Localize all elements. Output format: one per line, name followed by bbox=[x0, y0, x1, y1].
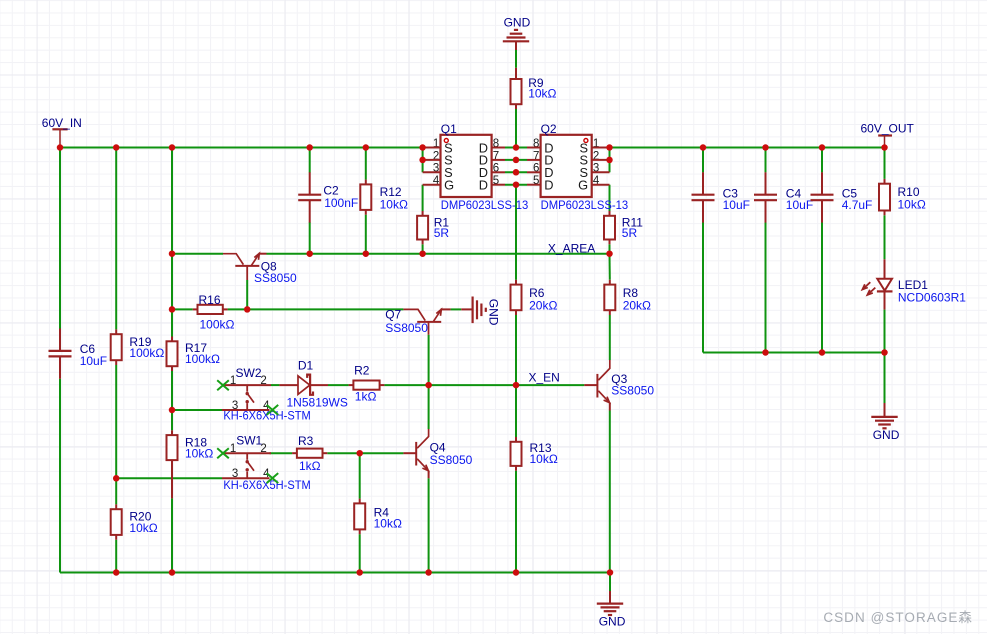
wire R17 column mid bbox=[171, 254, 173, 310]
junction X_EN / R6 R13 bbox=[513, 382, 520, 389]
junction rail / R10 60V_OUT bbox=[881, 144, 888, 151]
wire Q8 base bbox=[246, 280, 248, 309]
svg-text:10kΩ: 10kΩ bbox=[185, 446, 213, 460]
svg-text:GND: GND bbox=[504, 15, 531, 29]
junction R17 / SW2 row bbox=[169, 407, 176, 414]
wire R1 to X_AREA bbox=[422, 244, 424, 253]
wire R18 to bottom rail bbox=[171, 498, 173, 572]
transistor Q3 SS8050 (NPN) bbox=[584, 360, 654, 411]
junction rail / C2 bbox=[306, 144, 313, 151]
wire Q7 emitter to GND bbox=[451, 308, 462, 310]
Q1 pin 5 stub bbox=[492, 184, 505, 186]
wire C4 column top bbox=[765, 148, 767, 173]
transistor Q4 SS8050 (NPN) bbox=[403, 429, 472, 478]
junction X_AREA / R11 R8 bbox=[606, 250, 613, 257]
junction row4 / R9 column bbox=[513, 181, 520, 188]
svg-text:GND: GND bbox=[873, 428, 900, 442]
wire R4 to bottom rail bbox=[359, 534, 361, 572]
wire X_EN mid bbox=[429, 384, 516, 386]
wire Q1 gate to R1 bbox=[422, 185, 424, 212]
resistor R13 10k bbox=[511, 437, 558, 471]
wire D1 to R2 bbox=[328, 384, 349, 386]
wire R2 to X_EN node bbox=[384, 384, 428, 386]
wire R8 to Q3 collector bbox=[609, 315, 611, 360]
junction bottom rail / Q4 bbox=[425, 569, 432, 576]
wire R16 left bbox=[172, 308, 193, 310]
wire X_EN to R13 bbox=[515, 385, 517, 437]
junction rail / R17 column bbox=[169, 144, 176, 151]
ground right (below LED1) bbox=[871, 403, 899, 442]
wire R19 to SW1 node bbox=[115, 365, 117, 504]
junction Q1 pin2 bbox=[419, 157, 426, 164]
wire Q7 base to X_EN bbox=[428, 335, 430, 385]
svg-text:D1: D1 bbox=[298, 359, 314, 373]
LED LED1 NCD0603R1 bbox=[862, 259, 966, 309]
svg-text:R16: R16 bbox=[199, 293, 221, 307]
wire X_AREA main bbox=[267, 253, 610, 255]
Q2 pin 2 stub bbox=[592, 159, 610, 161]
svg-text:R2: R2 bbox=[354, 364, 370, 378]
junction bottom rail / R13 bbox=[513, 569, 520, 576]
wire SW2 pin2 to D1 bbox=[271, 384, 279, 386]
Q1 pin 1 stub bbox=[423, 147, 441, 149]
junction R16 row / Q8 base bbox=[244, 306, 251, 313]
svg-text:NCD0603R1: NCD0603R1 bbox=[898, 291, 966, 305]
wire R11 to X_AREA bbox=[609, 244, 611, 253]
wire GND to R9 bbox=[515, 50, 517, 68]
svg-text:D: D bbox=[479, 178, 488, 193]
resistor R8 20k bbox=[604, 280, 651, 315]
wire C3 to cap bus bbox=[702, 222, 704, 352]
resistor R1 5R bbox=[417, 211, 449, 244]
svg-text:R3: R3 bbox=[298, 434, 314, 448]
wire Q1-Q2 row 2 bbox=[505, 159, 527, 161]
svg-text:DMP6023LSS-13: DMP6023LSS-13 bbox=[441, 198, 529, 212]
svg-text:10kΩ: 10kΩ bbox=[898, 198, 926, 212]
wire SW2 row to R18 bbox=[171, 410, 173, 430]
svg-text:SW1: SW1 bbox=[236, 434, 262, 448]
wire X_AREA left bbox=[172, 253, 223, 255]
wire bottom rail to GND bbox=[609, 573, 611, 592]
svg-text:1kΩ: 1kΩ bbox=[299, 459, 321, 473]
svg-text:Q1: Q1 bbox=[441, 122, 457, 136]
MOSFET U Q2 DMP6023LSS-13 body bbox=[533, 122, 628, 212]
junction rail / C5 bbox=[819, 144, 826, 151]
wire C2 to X_AREA bbox=[309, 222, 311, 254]
wire Q1-Q2 row 4 bbox=[505, 184, 527, 186]
watermark bbox=[823, 606, 973, 626]
svg-text:5R: 5R bbox=[622, 226, 638, 240]
wire Q4 collector to X_EN bbox=[428, 385, 430, 429]
wire R17 column to R17 bbox=[171, 309, 173, 336]
svg-text:D: D bbox=[544, 178, 553, 193]
junction Q2 pin1 / rail bbox=[606, 144, 613, 151]
svg-text:SS8050: SS8050 bbox=[611, 384, 654, 398]
junction 60V_IN rail / left column bbox=[57, 144, 64, 151]
svg-text:100nF: 100nF bbox=[324, 196, 358, 210]
resistor R12 10k bbox=[360, 180, 408, 215]
wire drain rows to R6 bbox=[515, 185, 517, 280]
Q2 pin 8 stub bbox=[527, 147, 541, 149]
junction rail / R12 bbox=[363, 144, 370, 151]
Q1 pin 6 stub bbox=[492, 171, 505, 173]
wire R17 to SW2 row bbox=[171, 371, 173, 410]
svg-text:KH-6X6X5H-STM: KH-6X6X5H-STM bbox=[223, 478, 310, 492]
wire R19 column upper bbox=[115, 148, 117, 330]
svg-text:20kΩ: 20kΩ bbox=[623, 298, 651, 312]
junction bottom rail / R20 bbox=[113, 569, 120, 576]
junction bottom rail / R18 bbox=[169, 569, 176, 576]
wire LED1 to cap bus bbox=[884, 310, 886, 353]
wire cap bus bbox=[703, 352, 885, 354]
wire R16 to Q7 bbox=[228, 308, 404, 310]
junction X_AREA / C2 bbox=[306, 250, 313, 257]
svg-text:X_EN: X_EN bbox=[529, 370, 560, 384]
Q1 pin 2 stub bbox=[423, 159, 441, 161]
svg-text:G: G bbox=[578, 178, 588, 193]
ground bottom middle bbox=[597, 591, 626, 629]
Q2 pin 5 stub bbox=[527, 184, 541, 186]
svg-text:4.7uF: 4.7uF bbox=[842, 198, 873, 212]
Q2 pin 4 stub bbox=[592, 184, 610, 186]
no-connect flag SW2 pin 4 bbox=[267, 405, 279, 415]
junction row1 / R9 bbox=[513, 144, 520, 151]
capacitor C6 10uF bbox=[49, 329, 108, 379]
junction cap bus / C4 bbox=[762, 349, 769, 356]
junction bottom rail / GND bbox=[607, 569, 614, 576]
resistor R10 10k bbox=[879, 179, 926, 215]
wire C4 to cap bus bbox=[765, 222, 767, 352]
svg-text:Q7: Q7 bbox=[385, 308, 401, 322]
Q2 pin 6 stub bbox=[527, 171, 541, 173]
junction bottom rail / R4 bbox=[356, 569, 363, 576]
svg-text:DMP6023LSS-13: DMP6023LSS-13 bbox=[541, 198, 629, 212]
capacitor C4 10uF bbox=[754, 172, 813, 222]
wire rail Q2 to 60V_OUT bbox=[610, 147, 885, 149]
net label 60V_IN bbox=[42, 116, 82, 148]
junction cap bus / C5 bbox=[819, 349, 826, 356]
Q2 pin 7 stub bbox=[527, 159, 541, 161]
wire Q4 emitter to bottom rail bbox=[428, 478, 430, 572]
svg-text:100kΩ: 100kΩ bbox=[129, 346, 164, 360]
wire C5 column top bbox=[821, 148, 823, 173]
junction R3 / R4 node bbox=[356, 450, 363, 457]
transistor Q8 SS8050 (sideways NPN) bbox=[223, 253, 297, 284]
wire Q1-Q2 row 1 bbox=[505, 147, 527, 149]
wire cap bus to GND bbox=[884, 353, 886, 404]
wire R6 to X_EN bbox=[515, 315, 517, 385]
wire R12 column top bbox=[365, 148, 367, 180]
svg-text:100kΩ: 100kΩ bbox=[185, 352, 220, 366]
svg-text:SS8050: SS8050 bbox=[430, 453, 473, 467]
svg-text:GND: GND bbox=[599, 615, 626, 629]
capacitor C3 10uF bbox=[692, 172, 750, 222]
wire 60V_OUT to R10 bbox=[884, 148, 886, 179]
svg-text:1kΩ: 1kΩ bbox=[355, 389, 377, 403]
Q1 pin 3 stub bbox=[423, 171, 441, 173]
resistor R6 20k bbox=[511, 280, 558, 315]
wire left column upper bbox=[59, 148, 61, 329]
diode D1 1N5819WS (schottky) bbox=[279, 359, 347, 410]
junction X_AREA / R1 bbox=[419, 250, 426, 257]
Q2 pin 3 stub bbox=[592, 171, 610, 173]
wire SW2 lower row bbox=[172, 409, 222, 411]
wire R17 column top bbox=[171, 148, 173, 254]
resistor R17 100k bbox=[167, 337, 221, 372]
capacitor C5 4.7uF bbox=[811, 172, 873, 222]
resistor R9 10k bbox=[511, 68, 557, 109]
svg-text:100kΩ: 100kΩ bbox=[200, 317, 235, 331]
MOSFET U Q1 DMP6023LSS-13 body bbox=[433, 122, 529, 212]
wire R13 to bottom rail bbox=[515, 471, 517, 573]
wire left column lower bbox=[59, 379, 61, 573]
resistor R3 1k bbox=[292, 434, 327, 473]
wire R9 to drain row bbox=[515, 109, 517, 148]
no-connect flag SW1 pin 4 bbox=[267, 473, 279, 483]
junction rail / R19 column bbox=[113, 144, 120, 151]
junction X_AREA / R12 bbox=[363, 250, 370, 257]
svg-text:10kΩ: 10kΩ bbox=[129, 521, 157, 535]
svg-text:10uF: 10uF bbox=[723, 198, 750, 212]
junction X_AREA / left column bbox=[169, 250, 176, 257]
junction cap bus / LED column bbox=[881, 349, 888, 356]
svg-text:SS8050: SS8050 bbox=[254, 271, 297, 285]
Q1 pin 4 stub bbox=[423, 184, 441, 186]
resistor R19 100k bbox=[111, 329, 165, 365]
svg-text:5R: 5R bbox=[434, 226, 450, 240]
wire Q2 gate to R11 bbox=[609, 185, 611, 212]
wire R3 to node bbox=[327, 452, 359, 454]
resistor R16 100k bbox=[193, 293, 235, 331]
wire 60V_IN rail bbox=[60, 147, 423, 149]
wire C5 to cap bus bbox=[821, 222, 823, 352]
svg-text:Q2: Q2 bbox=[541, 122, 557, 136]
resistor R20 10k bbox=[111, 504, 158, 539]
junction R16 row / left column bbox=[169, 306, 176, 313]
net label X_AREA bbox=[548, 241, 595, 255]
junction rail / C3 bbox=[700, 144, 707, 151]
svg-text:60V_OUT: 60V_OUT bbox=[861, 122, 915, 136]
svg-text:10uF: 10uF bbox=[786, 198, 813, 212]
svg-text:10kΩ: 10kΩ bbox=[528, 86, 556, 100]
svg-text:10kΩ: 10kΩ bbox=[374, 516, 402, 530]
junction X_EN / R2 Q4 bbox=[425, 382, 432, 389]
wire bottom rail bbox=[60, 572, 610, 574]
wire R10 to LED1 bbox=[884, 215, 886, 259]
switch SW1 KH-6X6X5H-STM bbox=[222, 434, 311, 493]
svg-text:G: G bbox=[444, 178, 454, 193]
resistor R11 5R bbox=[604, 211, 643, 244]
svg-text:10uF: 10uF bbox=[80, 354, 107, 368]
svg-text:10kΩ: 10kΩ bbox=[380, 198, 408, 212]
wire Q1 source pins bbox=[422, 148, 424, 173]
svg-text:10kΩ: 10kΩ bbox=[530, 452, 558, 466]
transistor Q7 SS8050 (sideways NPN) bbox=[385, 308, 450, 335]
wire R12 to X_AREA bbox=[365, 215, 367, 254]
wire node to Q4 base bbox=[360, 452, 404, 454]
wire C2 column top bbox=[309, 148, 311, 173]
no-connect flag SW1 pin 1 bbox=[217, 448, 229, 458]
wire SW1 pin2 to R3 bbox=[270, 452, 293, 454]
svg-text:20kΩ: 20kΩ bbox=[529, 298, 557, 312]
svg-text:SS8050: SS8050 bbox=[385, 321, 428, 335]
wire Q1-Q2 row 3 bbox=[505, 171, 527, 173]
wire X_EN to Q3 bbox=[516, 384, 584, 386]
wire X_AREA to R8 bbox=[609, 254, 611, 280]
wire SW1 lower row bbox=[116, 477, 222, 479]
wire Q2 source pins bbox=[609, 148, 611, 173]
svg-text:60V_IN: 60V_IN bbox=[42, 116, 82, 130]
net label 60V_OUT bbox=[861, 122, 915, 148]
junction R19 / SW1 row bbox=[113, 475, 120, 482]
junction rail / C4 bbox=[762, 144, 769, 151]
switch SW2 KH-6X6X5H-STM bbox=[222, 366, 311, 423]
Q1 pin 8 stub bbox=[492, 147, 505, 149]
capacitor C2 100nF bbox=[298, 172, 358, 222]
resistor R18 10k bbox=[167, 430, 214, 498]
svg-text:SW2: SW2 bbox=[236, 366, 262, 380]
svg-text:X_AREA: X_AREA bbox=[548, 241, 595, 255]
svg-text:GND: GND bbox=[486, 299, 500, 326]
junction rail / Q1 pin1 bbox=[419, 144, 426, 151]
resistor R2 1k bbox=[349, 364, 385, 404]
net label X_EN bbox=[529, 370, 560, 384]
junction row2 / R9 column bbox=[513, 157, 520, 164]
resistor R4 10k bbox=[354, 499, 402, 535]
ground sideways (Q7 emitter) bbox=[461, 297, 500, 326]
wire Q3 emitter to bottom rail bbox=[609, 411, 611, 573]
wire node to R4 bbox=[359, 453, 361, 498]
wire C3 column top bbox=[702, 148, 704, 173]
junction Q2 pin2 bbox=[606, 157, 613, 164]
Q2 pin 1 stub bbox=[592, 147, 610, 149]
junction row3 / R9 column bbox=[513, 169, 520, 176]
ground top (above R9) bbox=[503, 15, 531, 50]
no-connect flag SW2 pin 1 bbox=[217, 380, 229, 390]
Q1 pin 7 stub bbox=[492, 159, 505, 161]
wire R20 to bottom rail bbox=[115, 540, 117, 573]
